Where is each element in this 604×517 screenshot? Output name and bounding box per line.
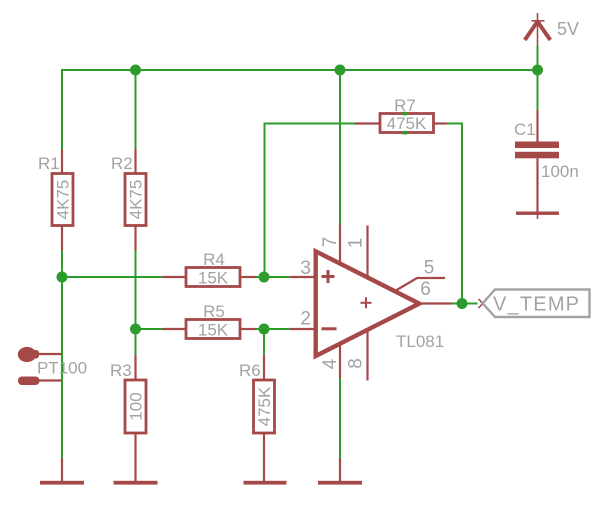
- value 15K (R5): [198, 321, 229, 340]
- pin number 1: [346, 238, 367, 249]
- wire R2 bottom to R3 top: [135, 251, 137, 356]
- value 475K (R7): [387, 114, 427, 133]
- svg-text:R2: R2: [111, 154, 133, 173]
- pin 8 wire: [366, 331, 368, 381]
- label C1: [514, 120, 536, 139]
- svg-text:V_TEMP: V_TEMP: [493, 294, 580, 316]
- R7 origin marks: [403, 112, 408, 135]
- pin number 2: [300, 309, 311, 330]
- value 15K (R4): [198, 269, 229, 288]
- svg-text:5: 5: [424, 258, 435, 279]
- wire R4 right to pin 3: [256, 276, 290, 278]
- svg-text:2: 2: [300, 309, 311, 330]
- resistor R5: [163, 320, 257, 339]
- svg-text:5V: 5V: [557, 19, 579, 39]
- value 100n (C1): [541, 162, 579, 181]
- svg-text:R3: R3: [110, 361, 132, 380]
- label R2: [111, 154, 133, 173]
- wire R5 right to pin 2: [256, 328, 290, 330]
- wire R2 column down from rail: [135, 70, 137, 149]
- svg-text:100: 100: [127, 392, 146, 420]
- junction node pin3 (R4/R7): [259, 272, 270, 283]
- pin 7 wire: [339, 225, 341, 264]
- value 4K75 (R1): [54, 180, 73, 220]
- svg-text:TL081: TL081: [396, 332, 444, 351]
- capacitor C1: [515, 110, 559, 212]
- label R4: [203, 250, 225, 269]
- wire R7 right to output node: [447, 124, 462, 304]
- pin 1 wire: [366, 226, 368, 277]
- wire op-amp V+ column down from rail: [339, 70, 341, 225]
- resistor R3: [125, 355, 146, 481]
- label R3: [110, 361, 132, 380]
- svg-text:6: 6: [420, 279, 431, 300]
- pin 6 wire: [419, 302, 452, 304]
- supply 5V symbol: [525, 13, 551, 46]
- label R6: [239, 361, 261, 380]
- pin number 5: [424, 258, 435, 279]
- wire R1 bottom to PT100 and ground: [61, 251, 63, 459]
- label R7: [394, 96, 416, 115]
- svg-text:8: 8: [346, 358, 367, 369]
- junction at V+ column top: [335, 65, 346, 76]
- wire node A to R4 left: [62, 276, 163, 278]
- svg-text:475K: 475K: [387, 114, 427, 133]
- svg-text:4K75: 4K75: [54, 180, 73, 220]
- pin number 7: [320, 237, 341, 248]
- svg-text:PT100: PT100: [37, 359, 87, 378]
- sensor PT100: [18, 347, 62, 385]
- ground (op-amp V-): [318, 458, 362, 485]
- op-amp U1 TL081: [316, 251, 420, 356]
- svg-text:R6: R6: [239, 361, 261, 380]
- pin number 3: [300, 258, 311, 279]
- op-amp plus input mark: [322, 270, 335, 283]
- svg-text:475K: 475K: [255, 386, 274, 426]
- net flag V_TEMP cross mark: [479, 299, 488, 308]
- wire left column down from rail: [61, 69, 63, 149]
- resistor R1: [52, 149, 73, 251]
- ground (left column): [40, 481, 84, 485]
- wire R6 top: [263, 329, 265, 355]
- wire 5V to C1: [537, 46, 539, 111]
- ground pin (left column): [61, 458, 63, 481]
- pin number 8: [346, 358, 367, 369]
- svg-text:4: 4: [320, 358, 341, 369]
- resistor R6: [254, 355, 275, 481]
- value 4K75 (R2): [127, 180, 146, 220]
- junction output node: [457, 298, 468, 309]
- value 475K (R6): [255, 386, 274, 426]
- pin 4 wire: [339, 344, 341, 379]
- op-amp center plus mark: [361, 297, 372, 308]
- ground (C1): [516, 212, 559, 220]
- wire op-amp V- to ground: [339, 378, 341, 458]
- junction node A (R1/R4/PT100): [57, 272, 68, 283]
- svg-text:C1: C1: [514, 120, 536, 139]
- svg-text:7: 7: [320, 237, 341, 248]
- junction at 5V / C1: [532, 65, 543, 76]
- pin 2 wire: [290, 328, 316, 330]
- pin number 6: [420, 279, 431, 300]
- junction at R2 top: [130, 65, 141, 76]
- value 100 (R3): [127, 392, 146, 420]
- svg-text:15K: 15K: [198, 269, 229, 288]
- label R1: [38, 154, 60, 173]
- ground (R6): [244, 481, 287, 485]
- label TL081: [396, 332, 444, 351]
- svg-text:4K75: 4K75: [127, 180, 146, 220]
- ground (R3): [114, 481, 158, 485]
- svg-text:100n: 100n: [541, 162, 579, 181]
- pin number 4: [320, 358, 341, 369]
- pin 3 wire: [290, 276, 316, 278]
- svg-text:1: 1: [346, 238, 367, 249]
- pin 5 wire: [395, 278, 445, 291]
- wire node B to R5 left: [136, 328, 163, 330]
- op-amp minus input mark: [322, 327, 337, 330]
- svg-text:15K: 15K: [198, 321, 229, 340]
- junction node pin2 (R5/R6): [259, 324, 270, 335]
- svg-text:R4: R4: [203, 250, 225, 269]
- wire top rail: [62, 69, 538, 71]
- label R5: [203, 302, 225, 321]
- resistor R2: [125, 149, 146, 251]
- svg-text:3: 3: [300, 258, 311, 279]
- wire op-amp output to V_TEMP: [452, 303, 478, 305]
- label 5V: [557, 19, 579, 39]
- label PT100: [37, 359, 87, 378]
- junction node B (R2/R5/R3): [130, 324, 141, 335]
- resistor R7: [355, 114, 447, 133]
- resistor R4: [163, 268, 257, 287]
- svg-text:R1: R1: [38, 154, 60, 173]
- svg-text:R5: R5: [203, 302, 225, 321]
- wire R7 left to node at pin 3: [265, 124, 356, 278]
- net flag V_TEMP: [483, 290, 590, 318]
